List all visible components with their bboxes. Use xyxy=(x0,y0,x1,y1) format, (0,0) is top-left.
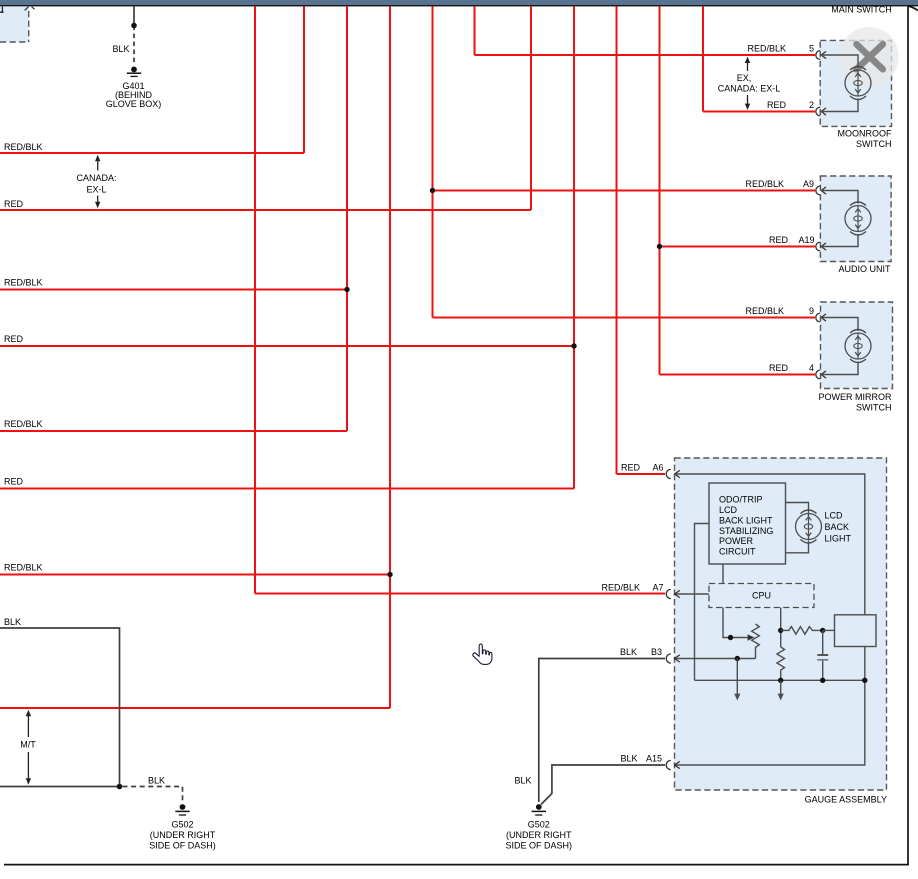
svg-text:EX,: EX, xyxy=(737,73,752,83)
junction R3/C1 node xyxy=(820,628,825,633)
svg-text:M/T: M/T xyxy=(20,740,36,750)
svg-text:2: 2 xyxy=(809,100,814,110)
svg-text:(UNDER RIGHT: (UNDER RIGHT xyxy=(150,830,216,840)
wire RED horizontal L6 xyxy=(0,488,574,490)
svg-text:AUDIO UNIT: AUDIO UNIT xyxy=(838,264,891,274)
svg-text:CANADA: EX-L: CANADA: EX-L xyxy=(718,84,781,94)
cpu box U2 xyxy=(709,584,814,608)
wire RED to pin 2 xyxy=(703,111,815,113)
svg-text:4: 4 xyxy=(809,363,814,373)
ground arrow left (inside gauge) xyxy=(734,659,740,701)
svg-text:A7: A7 xyxy=(652,583,663,593)
wire RED/BLK horizontal L3 xyxy=(0,289,347,291)
wire BLK upper left xyxy=(0,628,120,787)
wire RED horizontal L4 xyxy=(0,345,574,347)
svg-text:G502: G502 xyxy=(528,820,550,830)
wire RED/BLK horizontal L1 xyxy=(0,152,304,154)
svg-text:RED: RED xyxy=(621,463,641,473)
wire RED/BLK vertical v3 xyxy=(346,6,348,431)
junction B3/ground arrow xyxy=(735,656,740,661)
junction v10/A19 xyxy=(657,244,662,249)
close button xyxy=(839,27,899,87)
svg-text:RED/BLK: RED/BLK xyxy=(4,563,43,573)
svg-text:POWER: POWER xyxy=(719,536,754,546)
junction v3/L3 xyxy=(344,287,349,292)
pin 2 xyxy=(809,100,826,116)
wire RED vertical v8 xyxy=(573,6,575,488)
pin A15 xyxy=(620,754,679,770)
wire RED to pin 4 xyxy=(660,374,816,376)
wire BLK from G502 to pin A15 xyxy=(541,765,665,805)
wire RED/BLK horizontal L7 xyxy=(0,574,390,576)
svg-text:RED/BLK: RED/BLK xyxy=(601,583,640,593)
svg-text:BLK: BLK xyxy=(112,44,129,54)
svg-text:RED/BLK: RED/BLK xyxy=(4,278,43,288)
svg-text:CPU: CPU xyxy=(752,591,771,601)
label G502 left (UNDER RIGHT SIDE OF DASH) xyxy=(149,820,216,851)
dashed box corner mark (top left) xyxy=(0,6,4,12)
power mirror internal leads xyxy=(821,318,858,375)
svg-text:RED/BLK: RED/BLK xyxy=(4,419,43,429)
wire RED to pin A6 xyxy=(617,473,666,475)
connector box (cut off, top left) xyxy=(0,6,35,42)
wire RED/BLK vertical v5 to pin 9 xyxy=(432,6,434,317)
svg-text:BLK: BLK xyxy=(620,754,637,764)
svg-text:RED: RED xyxy=(769,363,789,373)
svg-text:A19: A19 xyxy=(798,235,814,245)
svg-text:SWITCH: SWITCH xyxy=(856,402,892,412)
pin 4 xyxy=(809,363,826,379)
wire RED/BLK vertical v2 xyxy=(303,6,305,153)
lamp LCD BACK LIGHT xyxy=(796,510,822,543)
resistor R2 (vertical) xyxy=(777,647,785,681)
svg-text:RED: RED xyxy=(4,199,24,209)
junction v5/A9 xyxy=(430,188,435,193)
svg-text:A15: A15 xyxy=(646,754,662,764)
wire RED vertical v9 to pin A6 xyxy=(616,6,618,474)
wire BLK to G401 xyxy=(133,6,135,64)
wire RED horizontal L2 xyxy=(0,209,531,211)
wiper arrowhead onto potentiometer R1 xyxy=(748,634,755,640)
svg-text:GAUGE ASSEMBLY: GAUGE ASSEMBLY xyxy=(805,795,887,805)
wire RED vertical v11 to pin 2 xyxy=(702,6,704,111)
audio unit box xyxy=(820,176,891,262)
moonroof switch box xyxy=(820,40,891,126)
wire RED/BLK to pin A7 xyxy=(255,593,665,595)
wire RED/BLK lead pin A7 to cpu xyxy=(675,593,709,595)
pin A7 xyxy=(652,583,679,599)
svg-text:EX-L: EX-L xyxy=(86,185,106,195)
pin A9 xyxy=(803,179,826,195)
svg-text:RED: RED xyxy=(767,100,787,110)
junction on wiper line xyxy=(728,635,733,640)
junction cpu/R3 node xyxy=(778,628,783,633)
wire RED vertical v10 to pin 4 xyxy=(659,6,661,374)
svg-text:RED/BLK: RED/BLK xyxy=(745,179,784,189)
wire RED to pin A19 xyxy=(660,246,816,248)
lamp in moonroof switch xyxy=(845,67,871,100)
svg-text:MOONROOF: MOONROOF xyxy=(838,129,892,139)
svg-text:BLK: BLK xyxy=(515,775,532,785)
power mirror switch box xyxy=(821,302,893,389)
svg-text:RED: RED xyxy=(769,235,789,245)
svg-text:BACK LIGHT: BACK LIGHT xyxy=(719,515,773,525)
label G502 right (UNDER RIGHT SIDE OF DASH) xyxy=(506,820,573,851)
wire RED/BLK horizontal L5 xyxy=(0,430,347,432)
junction bus/R2 xyxy=(778,678,783,683)
wire RED/BLK to pin 5 xyxy=(475,54,816,56)
wire BLK dashed to G502 left xyxy=(123,787,183,802)
ground G502 left xyxy=(175,804,189,815)
label POWER MIRROR SWITCH xyxy=(819,392,892,412)
wire RED/BLK to pin A9 xyxy=(433,190,816,192)
svg-text:CIRCUIT: CIRCUIT xyxy=(719,547,756,557)
wire RED horizontal M/T xyxy=(0,707,390,709)
svg-text:A9: A9 xyxy=(803,179,814,189)
svg-text:A6: A6 xyxy=(652,463,663,473)
wire RED/BLK vertical v6 to pin 5 xyxy=(474,6,476,55)
svg-text:GLOVE BOX): GLOVE BOX) xyxy=(106,99,162,109)
svg-text:BLK: BLK xyxy=(620,647,637,657)
wire lead regulator box to pin A15 xyxy=(675,647,865,766)
wire cpu to wiper arrow xyxy=(723,608,748,638)
junction bus/C1 xyxy=(820,678,825,683)
svg-text:BLK: BLK xyxy=(4,617,21,627)
svg-text:SWITCH: SWITCH xyxy=(856,139,892,149)
note CANADA: EX-L with double arrow xyxy=(76,155,116,208)
capacitor C1 xyxy=(817,630,828,680)
wire odo box to cpu xyxy=(722,564,724,584)
junction bus/regulator lead xyxy=(862,678,867,683)
wire RED vertical v7 xyxy=(530,6,532,210)
wire cpu to resistor R2 xyxy=(780,608,782,648)
svg-text:RED: RED xyxy=(4,477,24,487)
potentiometer R1 (dimmer) xyxy=(752,624,760,659)
ground G401 xyxy=(127,67,141,77)
svg-text:STABILIZING: STABILIZING xyxy=(719,526,773,536)
junction v8/L4 xyxy=(571,343,576,348)
moonroof switch internal leads xyxy=(821,55,858,112)
svg-text:RED/BLK: RED/BLK xyxy=(747,44,786,54)
svg-text:RED/BLK: RED/BLK xyxy=(745,306,784,316)
svg-text:MAIN SWITCH: MAIN SWITCH xyxy=(831,4,892,14)
svg-text:CANADA:: CANADA: xyxy=(76,173,116,183)
svg-text:BACK: BACK xyxy=(825,522,850,532)
wire BLK lead pin B3 to potentiometer xyxy=(675,658,756,660)
svg-text:B3: B3 xyxy=(651,647,662,657)
audio unit internal leads xyxy=(821,191,858,247)
svg-text:RED: RED xyxy=(4,334,24,344)
svg-text:G502: G502 xyxy=(171,820,193,830)
gauge assembly box xyxy=(675,458,887,790)
junction v4/L7 xyxy=(387,572,392,577)
junction BLK wires xyxy=(117,784,123,790)
pin 9 xyxy=(809,306,826,322)
wire RED/BLK vertical v4 xyxy=(389,6,391,708)
lamp in audio unit xyxy=(845,202,871,235)
svg-text:ODO/TRIP: ODO/TRIP xyxy=(719,495,763,505)
svg-text:RED/BLK: RED/BLK xyxy=(4,142,43,152)
pin 5 xyxy=(809,44,826,60)
svg-text:LIGHT: LIGHT xyxy=(825,533,852,543)
svg-text:9: 9 xyxy=(809,306,814,316)
svg-text:BLK: BLK xyxy=(148,776,165,786)
regulator box U3 xyxy=(835,615,877,647)
wire R3 node to regulator box xyxy=(823,629,835,631)
wire lead pin A6 to regulator box xyxy=(675,474,865,615)
ground G502 right xyxy=(532,804,546,815)
ground bus inside gauge xyxy=(695,679,865,681)
label MOONROOF SWITCH xyxy=(838,129,892,149)
ground arrow right (inside gauge) xyxy=(778,680,784,700)
mouse cursor xyxy=(473,644,492,664)
resistor R3 (horizontal) xyxy=(781,627,823,635)
wire RED/BLK to pin 9 xyxy=(433,317,816,319)
svg-text:LCD: LCD xyxy=(825,510,844,520)
odo/trip lcd back light stabilizing power circuit box U1 xyxy=(709,483,786,564)
junction on G401 wire xyxy=(131,23,137,29)
wire RED/BLK vertical v1 to pin A7 xyxy=(254,6,256,593)
note EX, CANADA: EX-L with double arrow xyxy=(718,57,781,110)
svg-text:5: 5 xyxy=(809,44,814,54)
pin B3 xyxy=(620,647,680,663)
svg-text:POWER MIRROR: POWER MIRROR xyxy=(819,392,892,402)
pin A19 xyxy=(798,235,826,251)
svg-text:SIDE OF DASH): SIDE OF DASH) xyxy=(149,840,216,850)
svg-text:(UNDER RIGHT: (UNDER RIGHT xyxy=(506,830,572,840)
lamp in power mirror switch xyxy=(845,330,871,363)
note M/T with double arrow xyxy=(20,710,36,785)
label LCD BACK LIGHT xyxy=(825,510,852,543)
svg-text:LCD: LCD xyxy=(719,505,738,515)
wire odo box to lcd back light lamp xyxy=(786,503,809,553)
label G401 (BEHIND GLOVE BOX) xyxy=(106,81,162,109)
wire BLK from G502 to pin B3 xyxy=(539,659,665,803)
wire BLK lower left xyxy=(0,786,120,788)
svg-text:SIDE OF DASH): SIDE OF DASH) xyxy=(506,840,573,850)
pin A6 xyxy=(652,463,679,479)
wire odo box to left rail xyxy=(695,524,710,681)
